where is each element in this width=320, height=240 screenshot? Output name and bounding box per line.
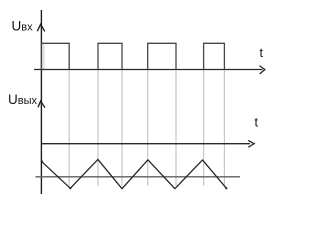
faint rising edge of pulse 1 beside axis	[43, 44, 45, 70]
t axis arrowhead (lower)	[248, 141, 254, 148]
lower axis arrowhead	[38, 101, 45, 108]
start dot of triangle wave	[41, 160, 43, 162]
square wave Uvx	[42, 43, 225, 69]
t axis (upper plot)	[34, 69, 263, 71]
grid line t3	[121, 70, 123, 186]
grid line t4	[147, 70, 149, 186]
svg-text:Uвых: Uвых	[8, 92, 38, 107]
svg-text:t: t	[260, 46, 264, 60]
vertical axis (shared U axis line)	[40, 10, 42, 194]
grid line t5	[175, 70, 177, 186]
output level line	[36, 176, 241, 178]
valley dot 1	[69, 187, 71, 189]
svg-text:t: t	[255, 116, 259, 130]
t axis arrowhead (upper)	[259, 66, 265, 74]
grid line t2	[97, 70, 99, 186]
grid line t1	[68, 70, 70, 186]
t axis (lower plot)	[41, 143, 250, 145]
svg-text:Uвх: Uвх	[12, 19, 34, 34]
triangle wave Uvyx	[41, 159, 226, 188]
grid line t6	[203, 70, 205, 186]
grid line t7	[223, 70, 225, 186]
upper axis arrowhead	[37, 24, 45, 31]
end dot of triangle wave	[225, 187, 227, 189]
